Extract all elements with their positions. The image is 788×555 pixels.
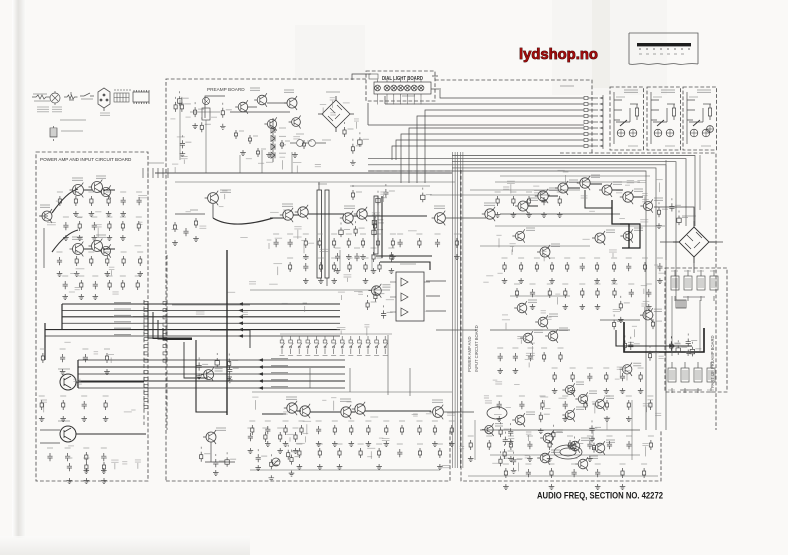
terminal lead (588, 127, 598, 129)
resistor R119 (503, 449, 506, 459)
value label (581, 438, 590, 440)
value label (137, 251, 143, 253)
wire (component stub) (270, 454, 272, 456)
net label (113, 308, 133, 310)
ground (376, 464, 382, 470)
part label (581, 196, 588, 198)
wire (component stub) (500, 451, 502, 453)
ground (74, 271, 80, 277)
value label (354, 247, 360, 249)
ground (103, 416, 109, 422)
bus wire net4 (417, 116, 584, 183)
value label (595, 426, 601, 428)
part label (267, 239, 272, 241)
part label (307, 242, 314, 244)
terminal lead (588, 97, 598, 99)
part label (338, 291, 345, 293)
resistor R76 (359, 448, 362, 458)
wire (stub) (505, 323, 507, 330)
resistor R122 (571, 372, 574, 382)
bus tick (147, 168, 149, 178)
part label (426, 413, 432, 415)
bus wire net6 (401, 134, 584, 183)
part label (617, 367, 624, 369)
value label (96, 235, 106, 237)
ground (266, 152, 272, 158)
part label (266, 161, 273, 163)
part label (228, 291, 236, 293)
part label (530, 342, 535, 344)
resistor R43 (173, 222, 176, 232)
part label (320, 104, 326, 106)
part label (77, 217, 82, 219)
part label (294, 227, 301, 229)
ground (580, 304, 586, 310)
resistor R4 (107, 196, 110, 206)
board-edge bundle wire 3 (457, 152, 459, 468)
resistor R123 (605, 372, 608, 382)
capacitor C59 (503, 437, 508, 445)
wire (component stub) (677, 340, 679, 342)
resistor R79 (438, 448, 441, 458)
resistor R35 (234, 130, 237, 139)
resistor R29 (294, 432, 297, 442)
wire (stub) (543, 400, 545, 404)
resistor R28 (279, 432, 282, 442)
resistor R77 (378, 448, 381, 458)
wire (stub) (520, 340, 522, 344)
wire (center rail) (350, 185, 430, 187)
value label (230, 458, 236, 460)
value label (226, 109, 232, 111)
resistor R85 (390, 252, 393, 262)
resistor R57 (418, 238, 421, 248)
net label (113, 301, 133, 303)
net label (270, 357, 290, 359)
part label (76, 268, 85, 270)
value label (279, 127, 286, 129)
resistor R49 (376, 238, 379, 248)
capacitor C17 (197, 362, 202, 370)
part label (558, 169, 565, 171)
speaker jack circuit 3 wires (687, 92, 711, 144)
value label (387, 311, 393, 313)
part label (641, 285, 647, 287)
ground (449, 441, 455, 447)
connector pin P17 (163, 323, 167, 326)
part label (540, 396, 548, 398)
part label (533, 185, 539, 187)
wire (rail right top) (470, 189, 580, 191)
wire (84, 248, 115, 250)
power transistor (output) QO2 (60, 426, 76, 442)
switch contact S10 (358, 336, 362, 354)
resistor R104 (623, 340, 626, 350)
connector pin P28 (144, 371, 148, 374)
value label (219, 460, 225, 462)
dial lamp feed (377, 97, 379, 105)
part label (545, 408, 551, 410)
value label (597, 444, 603, 446)
connector lug (554, 445, 582, 459)
connector pin P16 (144, 323, 148, 326)
transistor Q22 (368, 284, 381, 298)
transistor Q26 (352, 402, 365, 416)
resistor R93 (596, 262, 599, 272)
resistor R136 (649, 440, 652, 450)
wire (gnd rail bottom right) (468, 475, 658, 477)
connector pin P8 (584, 139, 588, 142)
transistor Q42 (545, 329, 558, 343)
value label (120, 216, 126, 218)
value label (101, 457, 107, 459)
resistor R112 (627, 400, 630, 410)
capacitor (electrolytic) C64 (677, 216, 681, 226)
value label (317, 233, 323, 235)
part label (330, 113, 336, 115)
wire (660, 241, 723, 243)
part label (648, 399, 654, 401)
part label (131, 409, 135, 411)
part label (447, 413, 455, 415)
value label (577, 443, 583, 445)
wire (stub) (543, 254, 545, 261)
ground (646, 304, 652, 310)
value label (514, 429, 520, 431)
value label (416, 233, 422, 235)
value label (74, 251, 80, 253)
wire (446, 217, 486, 219)
value label (675, 204, 681, 206)
part label (181, 157, 188, 159)
wire (280, 333, 392, 335)
capacitor C1 (121, 197, 126, 205)
value label (432, 400, 443, 402)
value label (544, 413, 550, 415)
value label (557, 191, 563, 193)
capacitor C69 (541, 197, 546, 205)
part label (643, 300, 650, 302)
resistor R39 (302, 140, 305, 149)
capacitor C2 (137, 197, 142, 205)
capacitor (electrolytic) C21 (358, 137, 362, 147)
ground (283, 441, 289, 447)
value label (220, 359, 226, 361)
wire (feed corner 3) (210, 330, 250, 348)
part label (382, 438, 390, 440)
ground (618, 317, 624, 323)
value label (551, 450, 560, 452)
ground (541, 212, 547, 218)
value label (668, 389, 675, 391)
part label (642, 200, 649, 202)
wire (crossover 3) (158, 320, 192, 339)
resistor R10 (90, 256, 93, 266)
board outline: right preamp segment (560, 153, 716, 283)
part label (293, 137, 300, 139)
value label (634, 228, 643, 230)
wire (component stub) (374, 216, 376, 218)
resistor R61 (374, 292, 377, 302)
wire (component stub) (671, 198, 673, 200)
resistor R52 (319, 262, 322, 272)
resistor R114 (504, 468, 507, 478)
value label (346, 233, 352, 235)
bus tick (157, 168, 159, 178)
jack J1b (629, 129, 637, 137)
transistor Q55 (562, 408, 574, 421)
wire (387, 335, 389, 395)
value label (504, 428, 510, 430)
value label (486, 435, 492, 437)
value label (283, 420, 289, 422)
value label (595, 283, 601, 285)
wire (component stub) (179, 91, 181, 93)
value label (399, 420, 405, 422)
resistor R2 (74, 196, 77, 206)
ground (120, 235, 126, 241)
switch contact S9 (349, 336, 353, 354)
value label (681, 389, 688, 391)
part label (111, 460, 118, 462)
part label (124, 411, 132, 413)
transistor Q54 (592, 397, 604, 410)
resistor R94 (613, 262, 616, 272)
switch label (374, 355, 379, 357)
resistor R21 (62, 400, 65, 410)
label SPEAKER RIGHT (680, 389, 702, 391)
svg-text:AUDIO FREQ, SECTION NO. 42272: AUDIO FREQ, SECTION NO. 42272 (537, 491, 663, 501)
part label (331, 397, 336, 399)
capacitor C44 (626, 263, 631, 271)
wire (stub) (383, 195, 385, 202)
value label (104, 251, 110, 253)
wire (stub) (565, 175, 567, 183)
value label (684, 270, 691, 272)
ground (437, 464, 443, 470)
transistor Q43 (640, 308, 653, 322)
bus wire main (y173) (155, 172, 452, 174)
value label (318, 257, 324, 259)
value label (508, 435, 514, 437)
value label (344, 229, 350, 231)
wire (bold right 1) (612, 200, 629, 248)
wire (rail bottom) (252, 391, 452, 393)
arrowhead (238, 334, 243, 338)
value label (318, 183, 327, 185)
value label (603, 367, 609, 369)
resistor R74 (318, 448, 321, 458)
part label (64, 341, 70, 343)
small parts row y143 (290, 140, 326, 147)
ground (549, 484, 555, 490)
transistor Q10 (235, 100, 248, 114)
value label (371, 301, 377, 303)
ground (101, 468, 107, 474)
transistor Q44 (620, 363, 633, 376)
legend symbol (lamp key) (50, 91, 60, 105)
value label (604, 395, 610, 397)
value label (502, 257, 508, 259)
part label (563, 171, 569, 173)
resistor R70 (418, 425, 421, 435)
wire (component stub) (229, 361, 231, 363)
wire (stub) (619, 370, 621, 377)
resistor R67 (367, 425, 370, 435)
wire (stub) (370, 451, 372, 459)
wire (stub) (304, 436, 306, 442)
capacitor C50 (513, 353, 518, 361)
wire (component stub) (194, 102, 196, 104)
board outline: speaker switch box 2 (647, 87, 681, 150)
value label (299, 420, 305, 422)
resistor R7 (121, 221, 124, 231)
ground (39, 416, 45, 422)
value label (695, 348, 701, 350)
part label (486, 275, 493, 277)
resistor R17 (136, 280, 139, 290)
board-edge bundle wire 5 (462, 152, 464, 468)
wire (component stub) (573, 437, 575, 439)
wire (to IC bold 2) (376, 255, 432, 257)
value label (681, 346, 687, 348)
wire TAPE bundle 2 (78, 366, 345, 368)
wire (stub) (43, 403, 45, 412)
slider block bottom 2 (681, 362, 689, 393)
value label (682, 217, 688, 219)
terminal lead (588, 139, 598, 141)
value label (253, 135, 258, 137)
resistor R71 (433, 425, 436, 435)
wire (component stub) (671, 337, 673, 339)
value label (534, 330, 543, 332)
wire (stub) (528, 362, 530, 367)
part label (386, 299, 394, 301)
wire (input to driver 2) (52, 230, 78, 252)
resistor R59 (351, 190, 354, 200)
part label (222, 190, 227, 192)
wire (component stub) (500, 422, 502, 424)
value label (326, 91, 340, 93)
transistor Q17 (295, 205, 308, 219)
switch label (305, 355, 310, 357)
net label (113, 321, 133, 323)
value label (383, 420, 389, 422)
arrowhead (238, 309, 243, 313)
wire (stub) (137, 463, 139, 469)
wire (component stub) (670, 336, 672, 338)
capacitor C36 (213, 459, 218, 467)
part label (413, 414, 418, 416)
value label (617, 321, 623, 323)
resistor R99 (581, 288, 584, 298)
capacitor C60 (508, 428, 513, 436)
value label (331, 233, 337, 235)
wire (signal path bottom) (262, 411, 431, 414)
value label (671, 270, 678, 272)
connector column (board edge, left) (143, 300, 145, 425)
wire (699, 300, 701, 352)
value label (497, 347, 503, 349)
wire (component stub) (373, 213, 375, 215)
wire (component stub) (287, 445, 289, 447)
ground (511, 212, 517, 218)
board outline: POWER AMP AND INPUT CIRCUIT BOARD (left) (36, 152, 148, 481)
transistor Q51 (482, 423, 494, 436)
net label (270, 385, 290, 387)
terminal arrow (599, 103, 603, 106)
part label (642, 193, 648, 195)
resistor R66 (350, 425, 353, 435)
ground (73, 211, 79, 217)
value label (377, 229, 383, 231)
value label (634, 189, 643, 191)
value label (517, 458, 523, 460)
part label (296, 442, 305, 444)
value label (510, 191, 516, 193)
wire (480, 429, 640, 431)
ground (350, 160, 356, 166)
wire (component stub) (367, 295, 369, 297)
part label (347, 401, 353, 403)
wire (feed corner) (196, 340, 227, 412)
resistor R26 (228, 359, 231, 369)
value label (62, 275, 68, 277)
wire (stub) (356, 122, 358, 129)
value label (653, 96, 662, 98)
capacitor C74 (589, 425, 594, 433)
ground (316, 441, 322, 447)
value label (376, 443, 382, 445)
value label (495, 424, 503, 426)
wire (654, 207, 694, 221)
part label (211, 116, 217, 118)
wire (stub) (498, 238, 500, 247)
part label (460, 447, 465, 449)
board outline: speaker switch box 1 (610, 87, 644, 150)
value label (662, 208, 668, 210)
resistor R25 (102, 462, 105, 472)
terminal lead (588, 109, 598, 111)
resistor R83 (200, 452, 203, 462)
legend connector grid (114, 89, 130, 102)
resistor R97 (548, 288, 551, 298)
ground (332, 441, 338, 447)
resistor R139 (592, 443, 595, 453)
ground (363, 278, 369, 284)
resistor R19 (105, 353, 108, 363)
ground (213, 470, 219, 476)
wire SPKR bundle 2 (62, 309, 340, 311)
part label (69, 291, 75, 293)
ground (511, 468, 517, 474)
value label (377, 219, 383, 221)
dial lamp feed (400, 97, 402, 105)
value label (202, 363, 208, 365)
ground (454, 254, 460, 260)
switch label (297, 355, 302, 357)
ground (657, 278, 663, 284)
wire (component stub) (215, 454, 217, 456)
value label (525, 463, 531, 465)
arrowhead (258, 386, 263, 390)
wire (right row rail) (500, 213, 620, 215)
svg-text:POWER AMP AND INPUT CIRCUIT BO: POWER AMP AND INPUT CIRCUIT BOARD (40, 157, 132, 162)
capacitor C56 (526, 469, 531, 477)
ground (620, 388, 626, 394)
value label (647, 395, 653, 397)
wire (main feed vertical) (226, 250, 228, 415)
